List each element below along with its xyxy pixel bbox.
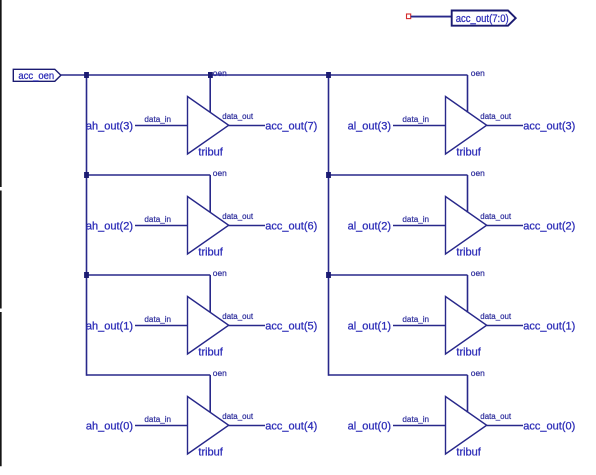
svg-text:acc_out(7): acc_out(7): [265, 121, 317, 133]
svg-text:tribuf: tribuf: [456, 447, 481, 459]
wire: data_out net row 1: [229, 125, 265, 127]
svg-text:data_out: data_out: [480, 111, 511, 121]
wire: oen drop to right tribuf row 3: [467, 275, 469, 313]
wire: data_out net row 4: [229, 425, 265, 427]
wire: oen branch left, row 2: [87, 174, 211, 176]
wire: acc_oen net, top horizontal run y=75: [61, 74, 468, 76]
svg-text:al_out(3): al_out(3): [348, 121, 391, 133]
svg-text:data_in: data_in: [144, 114, 171, 124]
wire: oen drop to right tribuf row 4: [467, 375, 469, 413]
wire: data_in net row 4: [135, 425, 188, 427]
svg-text:data_out: data_out: [480, 211, 511, 221]
wire: oen drop to left tribuf row 4: [209, 375, 211, 413]
svg-text:acc_out(0): acc_out(0): [523, 421, 575, 433]
svg-text:ah_out(2): ah_out(2): [86, 221, 133, 233]
svg-text:tribuf: tribuf: [198, 147, 223, 159]
svg-text:acc_out(7:0): acc_out(7:0): [456, 13, 509, 25]
svg-text:al_out(0): al_out(0): [348, 421, 391, 433]
I/O marker (red square) for acc_out(7:0): [407, 14, 411, 19]
wire: oen drop to right tribuf row 2: [467, 175, 469, 213]
wire: data_out net row 1: [487, 125, 523, 127]
svg-text:oen: oen: [471, 168, 485, 178]
svg-text:oen: oen: [213, 68, 227, 78]
junction at (86.5,275): [84, 272, 89, 278]
wire: data_in net row 1: [135, 125, 188, 127]
svg-text:data_in: data_in: [144, 414, 171, 424]
wire: data_in net row 2: [135, 225, 188, 227]
wire: data_out net row 4: [487, 425, 523, 427]
svg-text:acc_out(3): acc_out(3): [523, 121, 575, 133]
svg-text:data_out: data_out: [480, 411, 511, 421]
wire: oen branch right, row 3: [329, 274, 468, 276]
svg-text:acc_out(6): acc_out(6): [265, 221, 317, 233]
svg-text:oen: oen: [213, 168, 227, 178]
svg-text:data_in: data_in: [402, 114, 429, 124]
svg-text:tribuf: tribuf: [456, 247, 481, 259]
tribuf U8 row 4 right: [446, 397, 487, 455]
svg-text:data_out: data_out: [222, 311, 253, 321]
wire: right vertical oen bus: [328, 75, 330, 376]
input port banner acc_oen: [13, 69, 61, 81]
svg-text:tribuf: tribuf: [198, 447, 223, 459]
wire: data_out net row 2: [229, 225, 265, 227]
svg-text:ah_out(3): ah_out(3): [86, 121, 133, 133]
wire: data_in net row 4: [393, 425, 446, 427]
svg-text:acc_out(2): acc_out(2): [523, 221, 575, 233]
wire: data_in net row 3: [393, 325, 446, 327]
junction at (86.5,75): [84, 72, 89, 78]
wire: oen drop to left tribuf row 3: [209, 275, 211, 313]
wire from I/O marker to bus tag: [411, 16, 452, 18]
svg-text:acc_out(5): acc_out(5): [265, 321, 317, 333]
svg-text:oen: oen: [213, 268, 227, 278]
wire: oen branch right, row 4: [329, 374, 468, 376]
tribuf U7 row 4 left: [188, 397, 229, 455]
junction at (328.5,175): [326, 172, 331, 178]
svg-text:data_in: data_in: [144, 214, 171, 224]
tribuf U3 row 2 left: [188, 197, 229, 255]
svg-text:acc_oen: acc_oen: [18, 71, 54, 82]
svg-text:acc_out(4): acc_out(4): [265, 421, 317, 433]
svg-text:data_out: data_out: [480, 311, 511, 321]
wire: oen branch right, row 2: [329, 174, 468, 176]
wire: oen drop to left tribuf row 2: [209, 175, 211, 213]
tribuf U5 row 3 left: [188, 297, 229, 355]
svg-text:tribuf: tribuf: [456, 147, 481, 159]
svg-text:tribuf: tribuf: [198, 347, 223, 359]
svg-text:ah_out(1): ah_out(1): [86, 321, 133, 333]
wire: oen branch left, row 4: [87, 374, 211, 376]
svg-text:data_out: data_out: [222, 211, 253, 221]
svg-text:data_out: data_out: [222, 111, 253, 121]
svg-text:data_in: data_in: [402, 414, 429, 424]
wire: data_out net row 3: [487, 325, 523, 327]
wire: left vertical oen bus: [86, 75, 88, 376]
tribuf U1 row 1 left: [188, 97, 229, 155]
svg-text:data_in: data_in: [144, 314, 171, 324]
svg-text:oen: oen: [471, 68, 485, 78]
svg-text:data_out: data_out: [222, 411, 253, 421]
svg-text:tribuf: tribuf: [198, 247, 223, 259]
svg-text:oen: oen: [471, 368, 485, 378]
svg-text:ah_out(0): ah_out(0): [86, 421, 133, 433]
svg-text:oen: oen: [471, 268, 485, 278]
svg-text:oen: oen: [213, 368, 227, 378]
wire: data_out net row 3: [229, 325, 265, 327]
wire: oen drop to right tribuf row 1: [467, 75, 469, 113]
tribuf U4 row 2 right: [446, 197, 487, 255]
junction at (210.4,75): [208, 72, 213, 78]
wire: data_in net row 2: [393, 225, 446, 227]
wire: data_in net row 3: [135, 325, 188, 327]
junction at (86.5,175): [84, 172, 89, 178]
tribuf U2 row 1 right: [446, 97, 487, 155]
svg-text:data_in: data_in: [402, 314, 429, 324]
svg-text:al_out(1): al_out(1): [348, 321, 391, 333]
svg-text:acc_out(1): acc_out(1): [523, 321, 575, 333]
bus tag acc_out(7:0): [452, 11, 516, 26]
wire: data_in net row 1: [393, 125, 446, 127]
tribuf U6 row 3 right: [446, 297, 487, 355]
svg-text:al_out(2): al_out(2): [348, 221, 391, 233]
wire: oen drop to left tribuf row 1: [209, 75, 211, 113]
junction at (328.5,275): [326, 272, 331, 278]
wire: oen branch left, row 3: [87, 274, 211, 276]
wire: data_out net row 2: [487, 225, 523, 227]
svg-text:data_in: data_in: [402, 214, 429, 224]
svg-text:tribuf: tribuf: [456, 347, 481, 359]
sheet border left edge: [0, 0, 2, 466]
junction at (328.5,75): [326, 72, 331, 78]
